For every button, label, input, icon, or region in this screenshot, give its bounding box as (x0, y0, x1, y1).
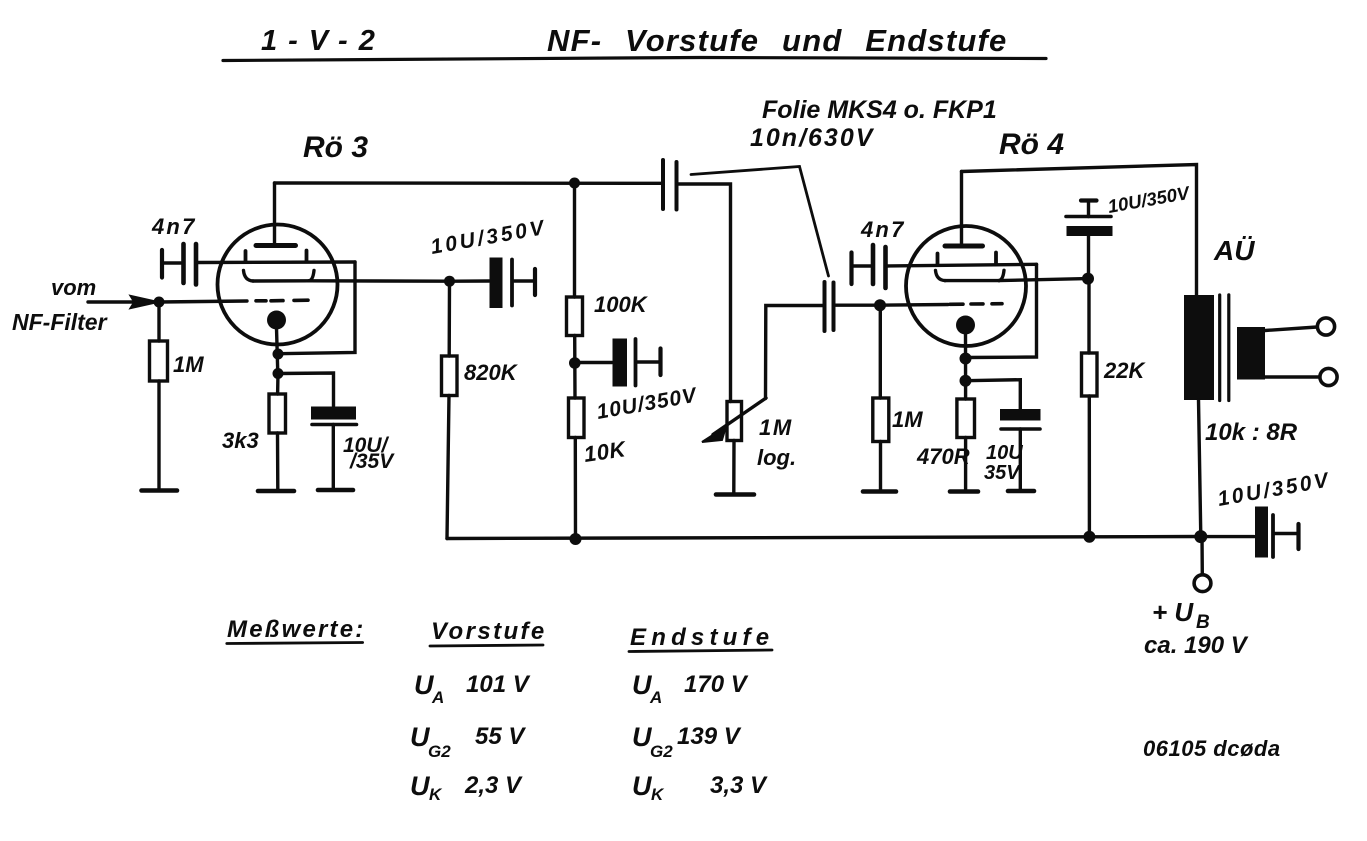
resistor 470R (957, 399, 975, 438)
wire cathode to bypass cap (278, 373, 334, 406)
open stub terminal (B+ filter) (1296, 524, 1300, 549)
ground under 10U/35V (318, 488, 353, 493)
wire cathode to bypass cap (Rö4) (966, 380, 1021, 409)
wire screen bypass stub (514, 279, 533, 282)
wire g3 box to cathode (278, 262, 355, 354)
table row UA Endstufe (632, 670, 749, 707)
wire secondary top lead (1265, 327, 1317, 331)
capacitor 10U/35V (Rö4 cathode bypass) thick plate (1000, 409, 1041, 421)
svg-text:AÜ: AÜ (1213, 235, 1255, 266)
transformer AÜ primary winding (1184, 295, 1214, 400)
svg-text:NF- Vorstufe und Endstufe: NF- Vorstufe und Endstufe (547, 23, 1008, 58)
wire cap to stub terminal (1087, 202, 1090, 217)
resistor 820K (442, 356, 458, 396)
table row UA Vorstufe (414, 670, 531, 707)
ground under 10U/35V (Rö4) (1008, 489, 1034, 494)
svg-text:/35V: /35V (349, 450, 395, 473)
svg-text:820K: 820K (464, 360, 519, 385)
node cathode junction (273, 349, 284, 360)
capacitor 10U/35V (Rö3 cathode bypass) thick plate (311, 407, 356, 420)
svg-text:10U/350V: 10U/350V (1106, 182, 1192, 217)
svg-text:170 V: 170 V (684, 671, 749, 698)
svg-text:3k3: 3k3 (222, 428, 259, 453)
wire cathode to 3k3 (276, 374, 280, 395)
svg-text:A: A (649, 688, 662, 707)
svg-text:3,3 V: 3,3 V (710, 772, 768, 799)
wire pot bottom to ground (732, 441, 736, 494)
label + UB (1152, 597, 1210, 633)
capacitor 10U/350V thin plate (B+ filter) (1271, 515, 1275, 557)
wire stub to 4n7 (163, 261, 181, 264)
svg-text:139 V: 139 V (677, 723, 742, 750)
svg-text:ca. 190 V: ca. 190 V (1144, 632, 1249, 659)
underline Endstufe (629, 650, 772, 652)
wire 100K to 10K (573, 336, 577, 399)
node rail/10K junction (570, 533, 582, 545)
wire junction up to 10U/350V cap (1087, 236, 1090, 279)
wire bypass cap stub (637, 360, 659, 363)
svg-text:10n/630V: 10n/630V (750, 124, 875, 152)
output terminal top (1317, 318, 1334, 335)
capacitor 10U/350V (divider bypass) thick plate (613, 339, 628, 387)
svg-text:K: K (429, 785, 443, 804)
svg-text:+ U: + U (1152, 597, 1194, 627)
capacitor 10U/350V (Rö4 screen) thick plate (1067, 226, 1113, 236)
wire 1M bottom lead (879, 442, 882, 491)
underline Vorstufe (430, 645, 543, 646)
tube Rö3 cathode dot (267, 311, 286, 330)
svg-text:Folie MKS4 o. FKP1: Folie MKS4 o. FKP1 (762, 96, 997, 124)
wire junction to screen bypass cap (455, 279, 489, 283)
wire 22K to B+ rail (1088, 396, 1091, 537)
tube Rö4 anode lead (960, 172, 963, 246)
svg-text:4n7: 4n7 (860, 217, 906, 242)
node g2/820K junction (444, 276, 455, 287)
svg-text:G2: G2 (428, 742, 451, 761)
capacitor 10U/35V thin plate (312, 423, 357, 427)
svg-text:vom: vom (51, 275, 96, 300)
capacitor coupling 2 plates (823, 282, 827, 331)
ground under pot (716, 492, 754, 497)
resistor 1M (Rö4 grid leak) (873, 398, 889, 442)
potentiometer wiper line (713, 398, 766, 435)
capacitor 4n7 (Rö4) plates (871, 245, 876, 284)
svg-text:22K: 22K (1103, 358, 1146, 383)
capacitor 10U/350V (screen bypass) thick plate (490, 258, 503, 309)
wire junction down to 100K (573, 183, 576, 297)
svg-text:Meßwerte:: Meßwerte: (227, 616, 366, 643)
svg-text:10U/350V: 10U/350V (429, 216, 549, 259)
node rail/22K junction (1083, 531, 1095, 543)
wire bypass cap to ground (332, 425, 335, 489)
wire 1M (Rö4) top lead (879, 305, 882, 398)
wire 1M top lead (157, 302, 160, 341)
wire 820K to B+ rail (447, 396, 449, 539)
resistor 1M (grid leak Rö3) (150, 341, 168, 381)
node cathode junction (Rö4) (960, 353, 972, 365)
wire +UB terminal lead (1200, 537, 1204, 575)
label vom NF-Filter (12, 275, 108, 335)
svg-text:U: U (410, 771, 431, 801)
potentiometer 1M log body (727, 402, 742, 441)
svg-text:4n7: 4n7 (151, 214, 197, 239)
wire stub to 4n7 (853, 264, 871, 267)
label 10U/35V (two lines) (343, 434, 395, 473)
open stub terminal (533, 269, 537, 295)
wire g2 to 22K junction (999, 279, 1087, 281)
capacitor 10U/350V thin plate (Rö4 screen) (1066, 215, 1111, 219)
resistor 10K (569, 398, 585, 438)
wire coupling cap to pot (678, 184, 731, 402)
wire AÜ primary to B+ rail (1199, 400, 1201, 537)
capacitor Folie MKS4 coupling plates (661, 160, 665, 209)
svg-text:101 V: 101 V (466, 671, 531, 698)
node cathode bypass branch (Rö4) (960, 375, 972, 387)
svg-text:Rö 3: Rö 3 (303, 131, 368, 164)
ground under 1M (142, 488, 178, 493)
resistor 3k3 (269, 394, 286, 433)
capacitor 10U/35V thin plate (Rö4) (1001, 427, 1040, 431)
capacitor 10U/350V (B+ filter) thick plate (1255, 507, 1268, 558)
wire 10K to B+ rail (574, 438, 578, 540)
tube Rö4 grid g3 ticks (936, 254, 940, 265)
svg-text:G2: G2 (650, 742, 673, 761)
node rail/AÜ junction (1194, 530, 1207, 543)
svg-text:2,3 V: 2,3 V (464, 772, 523, 799)
output terminal bottom (1320, 368, 1337, 385)
tube Rö4 anode bar (945, 244, 983, 249)
table row UG2 Vorstufe (410, 722, 526, 761)
terminal +UB circle (1194, 575, 1211, 592)
tube Rö3 grid g1 dashed (256, 298, 308, 302)
wire 4n7 to g3 row (crosses tube) (887, 264, 1037, 266)
wire cathode lead down (277, 328, 278, 374)
svg-text:U: U (632, 771, 653, 801)
open stub terminal (658, 349, 662, 376)
svg-text:NF-Filter: NF-Filter (12, 309, 108, 335)
ground under 1M (Rö4) (863, 489, 896, 494)
capacitor 10U/350V thin plate (510, 260, 514, 306)
capacitor 4n7 (Rö3) open stub terminal (160, 250, 164, 278)
wire wiper up to coupling cap 2 (766, 306, 824, 399)
svg-text:Endstufe: Endstufe (630, 624, 774, 651)
underline Meßwerte (227, 643, 363, 644)
wire junction to g1 of Rö4 (880, 303, 948, 307)
wire input to grid g1 (159, 301, 247, 302)
capacitor 10U/350V thin plate (634, 339, 638, 386)
svg-text:K: K (651, 785, 665, 804)
transformer AÜ secondary winding (1237, 327, 1265, 380)
resistor 22K (1082, 353, 1098, 396)
wire 470R to ground (964, 438, 967, 491)
svg-text:10K: 10K (582, 436, 629, 467)
wire secondary bottom lead (1265, 375, 1319, 378)
node g2/22K junction (1082, 273, 1094, 285)
node input junction (154, 297, 165, 308)
pointer line to foil label (691, 167, 829, 277)
tube Rö3 anode lead (273, 183, 276, 245)
wire g2 to 820K junction (309, 279, 450, 283)
tube Rö3 anode bar (256, 243, 296, 248)
tube Rö4 envelope (906, 226, 1026, 346)
resistor 100K (567, 297, 583, 336)
wire 3k3 bottom lead (276, 433, 280, 489)
potentiometer wiper arrowhead (702, 427, 726, 443)
svg-text:06105 dcøda: 06105 dcøda (1143, 736, 1281, 761)
wire 4n7 to g3 row (crosses tube) (198, 260, 355, 264)
svg-text:1-V-2: 1-V-2 (261, 25, 386, 57)
tube Rö3 grid g2 (screen) with hooks (244, 271, 254, 282)
wire cathode lead down (964, 333, 967, 399)
wire junction to 820K (448, 281, 452, 356)
svg-text:Vorstufe: Vorstufe (431, 618, 547, 645)
svg-text:35V: 35V (984, 462, 1021, 484)
node Rö4 grid junction (874, 299, 886, 311)
wire 1M bottom lead (157, 381, 160, 489)
svg-text:1M: 1M (759, 415, 793, 440)
input arrowhead (130, 296, 159, 309)
table row UK Endstufe (632, 771, 768, 804)
svg-text:1M: 1M (173, 352, 204, 377)
wire coupling cap 2 to Rö4 grid (835, 304, 879, 307)
node cathode bypass branch (273, 368, 284, 379)
title underline (223, 58, 1046, 61)
wire B+ rail (447, 537, 1201, 539)
svg-text:10U/350V: 10U/350V (595, 383, 700, 423)
tube Rö3 envelope (218, 225, 338, 345)
capacitor 4n7 (Rö4) open stub terminal (849, 253, 853, 285)
open stub terminal (horizontal) (1081, 198, 1097, 202)
svg-text:1M: 1M (892, 407, 923, 432)
svg-text:10U: 10U (986, 442, 1023, 464)
wire Rö4 anode to AÜ primary (962, 165, 1197, 296)
wire bypass cap to ground (Rö4) (1019, 429, 1022, 489)
wire g3 box to cathode (966, 264, 1037, 357)
tube Rö3 grid g3 ticks (244, 251, 248, 262)
wire filter cap stub (1275, 532, 1297, 535)
tube Rö4 grid g1 dashed (950, 302, 1002, 306)
svg-text:10U/350V: 10U/350V (1216, 468, 1332, 510)
table row UG2 Endstufe (632, 722, 742, 761)
wire Rö3 anode to coupling cap (275, 181, 663, 185)
wire input from NF-Filter (88, 300, 140, 303)
svg-text:A: A (431, 688, 444, 707)
svg-text:10k : 8R: 10k : 8R (1205, 419, 1298, 446)
tube Rö4 cathode dot (956, 316, 975, 335)
transformer AÜ core lines (1218, 295, 1221, 401)
wire divider junction to bypass cap (575, 361, 612, 364)
table row UK Vorstufe (410, 771, 523, 804)
svg-text:Rö 4: Rö 4 (999, 128, 1064, 161)
ground under 3k3 (258, 489, 294, 494)
ground under 470R (950, 489, 978, 494)
svg-text:470R: 470R (916, 444, 970, 469)
wire rail to filter cap (1201, 535, 1254, 538)
capacitor 4n7 (Rö3) plates (181, 244, 186, 283)
svg-text:log.: log. (757, 445, 796, 470)
wire junction down to 22K (1087, 279, 1090, 354)
svg-text:55 V: 55 V (475, 723, 526, 750)
svg-text:100K: 100K (594, 292, 649, 317)
svg-text:B: B (1196, 612, 1210, 633)
node divider junction (569, 357, 581, 369)
node anode/100K junction (569, 178, 580, 189)
tube Rö4 grid g2 (screen) with hooks (936, 271, 946, 281)
